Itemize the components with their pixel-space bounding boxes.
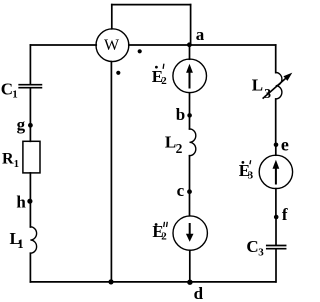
arrow across L3 xyxy=(263,73,293,99)
resistor R1 xyxy=(23,141,40,173)
inductor L1 xyxy=(30,227,36,253)
svg-text:R: R xyxy=(2,151,14,168)
svg-text:h: h xyxy=(16,192,26,211)
svg-text:3: 3 xyxy=(264,86,271,101)
wire b to L2 xyxy=(189,115,191,129)
wire wattmeter bottom vertical xyxy=(110,62,112,282)
wire top-left horizontal xyxy=(30,44,96,46)
wire E2pp to node d xyxy=(189,250,191,282)
arrow in E2pp (down) xyxy=(186,223,194,242)
svg-text:1: 1 xyxy=(14,159,19,170)
svg-text:3: 3 xyxy=(248,169,254,181)
svg-text:e: e xyxy=(281,135,289,155)
inductor L3 xyxy=(276,72,282,98)
arrow in E3 (up) xyxy=(273,160,280,185)
wire E3 to node f xyxy=(275,189,277,217)
wire bypass down to node a xyxy=(190,5,192,45)
svg-text:W: W xyxy=(104,37,120,54)
svg-text:d: d xyxy=(194,284,204,302)
label E2 prime xyxy=(152,64,168,87)
wattmeter U1 circle xyxy=(96,29,129,62)
source E2pp circle xyxy=(173,216,207,250)
wire f to C3 xyxy=(275,217,277,245)
inductor L2 xyxy=(190,129,196,156)
label E3 prime xyxy=(239,160,254,181)
svg-text:2: 2 xyxy=(161,231,167,243)
svg-text:f: f xyxy=(282,205,288,224)
wire R1 to L1 xyxy=(29,173,31,227)
wire bottom horizontal xyxy=(30,281,275,283)
node h xyxy=(27,199,32,204)
source E2 circle xyxy=(173,59,207,93)
svg-text:c: c xyxy=(177,181,185,200)
wattmeter polarity dot right xyxy=(138,49,142,53)
node b xyxy=(187,113,192,118)
label L1 xyxy=(10,229,24,251)
label L3 xyxy=(252,76,271,101)
label C1 xyxy=(1,79,18,100)
capacitor C1 xyxy=(19,85,41,88)
wire mid branch a to E2 xyxy=(189,45,191,59)
wire L1 to bottom xyxy=(29,253,31,282)
wire node a to top-right corner xyxy=(189,44,275,46)
wire top bypass horizontal xyxy=(112,4,191,6)
svg-text:2: 2 xyxy=(176,141,183,156)
svg-text:2: 2 xyxy=(161,75,167,87)
node a xyxy=(187,42,192,47)
node f xyxy=(274,215,279,220)
label R1 xyxy=(2,151,19,170)
svg-text:L: L xyxy=(252,76,263,95)
junction wattmeter-bottom xyxy=(108,279,113,284)
svg-text:a: a xyxy=(196,25,205,44)
wire E2 to node b xyxy=(189,93,191,116)
wire e to E3 xyxy=(275,145,277,155)
wire wattmeter top xyxy=(111,5,113,29)
wire c to E2pp xyxy=(189,192,191,216)
svg-text:b: b xyxy=(176,105,185,124)
node e xyxy=(274,143,279,148)
wire L3 to node e xyxy=(275,99,277,145)
node c xyxy=(187,189,192,194)
source E3 circle xyxy=(259,155,292,188)
wattmeter polarity dot bottom xyxy=(116,71,120,75)
svg-text:1: 1 xyxy=(12,88,18,100)
capacitor C3 xyxy=(267,246,286,249)
svg-text:C: C xyxy=(246,237,258,256)
svg-text:1: 1 xyxy=(17,237,23,251)
wire L2 to node c xyxy=(189,156,191,192)
wire C1 to R1 xyxy=(29,88,31,141)
label L2 xyxy=(165,133,183,156)
node g xyxy=(28,123,33,128)
svg-text:3: 3 xyxy=(258,247,264,259)
wire wattmeter right to node a xyxy=(129,44,190,46)
svg-text:L: L xyxy=(165,133,176,152)
node d xyxy=(187,280,192,285)
svg-text:g: g xyxy=(17,115,26,134)
arrow in E2 (up) xyxy=(186,64,193,89)
wire right branch corner to L3 xyxy=(275,45,277,73)
label E2 double prime xyxy=(152,222,167,243)
wire C3 to bottom xyxy=(275,249,277,282)
label C3 xyxy=(246,237,264,258)
wire left vertical to C1 xyxy=(29,45,31,84)
